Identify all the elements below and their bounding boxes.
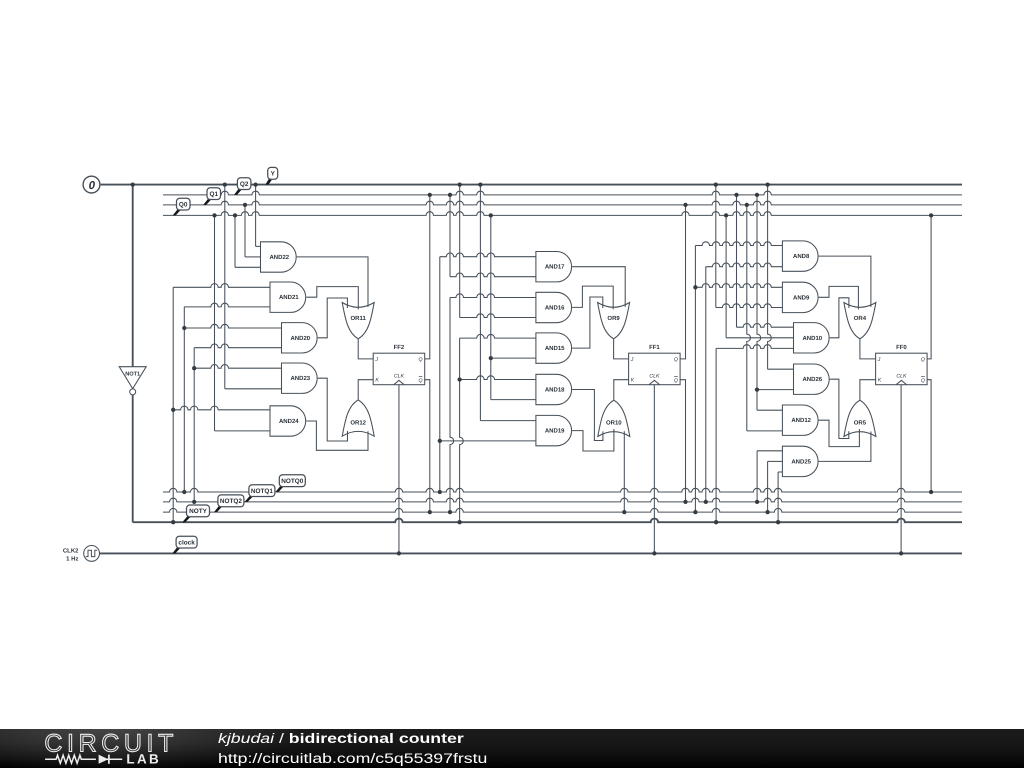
wire AND10 middle input	[726, 337, 793, 339]
wire OR4 output to FF0 J	[860, 339, 876, 359]
wire FF2 Q up to Q2 line	[425, 195, 430, 359]
junction lineB-v194	[192, 500, 196, 504]
wire AND21 output to OR11	[306, 287, 358, 310]
OR gate OR11 (pointing down)	[342, 303, 374, 339]
svg-text:0: 0	[89, 180, 96, 192]
svg-text:K: K	[375, 378, 379, 384]
wire OR10 output to FF1 K	[614, 380, 629, 401]
wire NOTQ1 tap up to AND8	[705, 267, 707, 502]
wire OR5 output to FF0 K	[860, 380, 876, 401]
wire AND24 bottom input	[215, 430, 271, 432]
svg-text:AND9: AND9	[793, 294, 810, 301]
junction lineA-v184	[182, 490, 186, 494]
svg-text:AND18: AND18	[545, 387, 565, 394]
svg-text:AND19: AND19	[545, 428, 565, 435]
junction lineC-OR10	[622, 510, 626, 514]
flag label NOTQ0	[276, 475, 306, 492]
svg-text:AND12: AND12	[791, 417, 811, 424]
svg-text:OR11: OR11	[351, 315, 367, 322]
wire FF2 Qbar down to NOTQ2 line	[425, 380, 430, 512]
wire AND22 top input	[256, 245, 261, 247]
junction AND9-top	[693, 285, 697, 289]
wire AND20 top input	[184, 324, 281, 328]
wire AND8 top input	[695, 242, 782, 246]
junction line1-v715	[714, 182, 718, 186]
OR gate OR10 (pointing up)	[598, 400, 630, 436]
junction line1-v255	[253, 182, 257, 186]
junction clock-FF2	[397, 551, 401, 555]
wire AND24 top input	[173, 406, 270, 410]
wire Q0 tap down to AND22	[234, 215, 236, 267]
flag label Y	[265, 167, 277, 184]
wire AND9 output to OR4	[819, 286, 859, 309]
junction line4-v235	[233, 213, 237, 217]
wire NOTY tap up to AND21	[172, 287, 174, 522]
svg-text:AND25: AND25	[791, 458, 811, 465]
junction lineA-FF0Qb	[929, 490, 933, 494]
svg-text:AND16: AND16	[545, 305, 565, 312]
wire NOTQ1 tap up to AND20	[193, 348, 195, 502]
OR gate OR4 (pointing down)	[844, 303, 876, 339]
wire AND16 bottom input	[460, 314, 536, 318]
wire NOT1 output down to NOTY line	[132, 395, 134, 522]
wire net0 tap down to AND16	[459, 185, 461, 318]
flag label NOTY	[182, 505, 209, 522]
AND gate AND23	[282, 363, 318, 393]
svg-text:Q: Q	[419, 357, 423, 363]
junction line2-FF2Q	[428, 193, 432, 197]
junction line4-v490	[489, 213, 493, 217]
wire OR12 output to FF2 K	[358, 380, 373, 400]
wire net0 tap down to AND23	[224, 185, 226, 389]
junction lineD-v173	[171, 520, 175, 524]
flag label Q2	[234, 178, 251, 195]
junction line4-v214	[212, 213, 216, 217]
wire FF2 CLK to clock line	[398, 385, 400, 554]
svg-text:CLK: CLK	[394, 374, 405, 380]
wire FF1 CLK to clock line	[653, 385, 655, 554]
AND gate AND10	[794, 323, 830, 353]
svg-text:AND17: AND17	[545, 264, 565, 271]
junction AND20-top	[182, 326, 186, 330]
wire OR11 output to FF2 J	[358, 339, 373, 359]
svg-text:OR5: OR5	[854, 420, 867, 427]
wire NOTQ2 tap up to AND16	[450, 298, 454, 513]
wire NOTQ2 tap up to AND8	[694, 246, 696, 513]
junction clock-FF1	[652, 551, 656, 555]
wire NOTQ2 up to OR10 right input	[623, 431, 625, 512]
junction AND19-bot	[438, 439, 442, 443]
wire AND12 output to OR5	[819, 420, 860, 446]
svg-text:AND21: AND21	[279, 294, 299, 301]
wire FF1 Q up to Q1 line	[680, 205, 685, 359]
wire Q1 tap down to AND12	[747, 205, 751, 431]
flip-flop FF2	[373, 344, 425, 385]
svg-text:CLK: CLK	[649, 374, 660, 380]
wire AND17 top input	[440, 253, 536, 257]
wire net0 tap down to AND26	[768, 185, 772, 370]
junction line1-v767	[765, 182, 769, 186]
node 0 terminal	[83, 176, 100, 193]
OR gate OR9 (pointing down)	[598, 303, 630, 339]
svg-text:AND20: AND20	[290, 335, 310, 342]
svg-text:Q0: Q0	[179, 201, 188, 208]
svg-text:Q: Q	[921, 378, 925, 384]
AND gate AND22	[261, 242, 297, 272]
AND gate AND19	[536, 415, 572, 445]
wire net0 tap down to AND22	[255, 185, 257, 247]
wire Q0 tap down to AND18	[490, 215, 492, 399]
svg-text:Q1: Q1	[210, 191, 219, 198]
wire AND21 top input	[173, 284, 270, 288]
wire AND18 output to OR10	[572, 390, 603, 441]
wire AND17 output to OR9	[572, 267, 625, 307]
AND gate AND17	[536, 252, 572, 282]
wire AND23 bottom input	[225, 388, 282, 390]
junction line4-FF0Q	[929, 213, 933, 217]
wire top bus line 3 (Q1 net)	[163, 201, 962, 205]
wire node 0 down to NOT1	[132, 185, 134, 367]
AND gate AND20	[282, 323, 318, 353]
junction lineB-v705	[704, 500, 708, 504]
junction line2-v450	[448, 193, 452, 197]
svg-text:AND22: AND22	[269, 254, 289, 261]
wire AND16 top input	[450, 294, 536, 298]
flag label Q1	[203, 188, 220, 205]
svg-text:Q2: Q2	[240, 181, 249, 188]
AND gate AND9	[782, 282, 818, 312]
svg-text:J: J	[374, 357, 378, 363]
wire AND21 bottom input	[184, 303, 270, 307]
wire AND15 bottom input	[491, 357, 536, 359]
wire NOTY tap up to AND25	[777, 472, 779, 522]
svg-text:AND24: AND24	[279, 418, 299, 425]
wire FF0 CLK to clock line	[900, 385, 902, 554]
footer bar	[0, 729, 1024, 768]
junction lineC-v450b	[448, 510, 452, 514]
svg-text:CLK: CLK	[896, 374, 907, 380]
svg-text:Q: Q	[419, 378, 423, 384]
AND gate AND18	[536, 374, 572, 404]
wire AND9 bottom input	[716, 304, 783, 308]
wire Q0 tap down to AND24	[214, 215, 216, 431]
svg-text:1 Hz: 1 Hz	[66, 555, 78, 562]
junction AND23-top	[192, 366, 196, 370]
junction line3-v245	[243, 203, 247, 207]
wire AND19 bottom input	[440, 440, 536, 442]
svg-text:OR9: OR9	[607, 315, 620, 322]
junction lineC-v695	[693, 510, 697, 514]
clock source CLK2 1 Hz	[63, 546, 100, 563]
svg-text:LAB: LAB	[126, 752, 161, 767]
wire AND10 output to OR4	[830, 298, 849, 338]
wire clock line	[100, 552, 963, 554]
wire OR9 output to FF1 J	[614, 339, 629, 359]
flag label Q0	[173, 198, 190, 215]
svg-text:AND15: AND15	[545, 345, 565, 352]
junction line4-v726	[724, 213, 728, 217]
AND gate AND25	[782, 446, 818, 476]
junction lineD-v778	[776, 520, 780, 524]
wire bottom bus line NOTQ1	[163, 498, 962, 502]
svg-text:OR12: OR12	[350, 419, 366, 426]
wire bottom bus line NOTY	[133, 519, 962, 523]
junction lineA-v440	[438, 490, 442, 494]
junction lineD-v459b	[457, 520, 461, 524]
wire NOTQ0 tap up to AND21	[183, 307, 185, 492]
svg-text:CLK2: CLK2	[63, 548, 79, 555]
junction AND26-bot	[755, 387, 759, 391]
wire Q1 tap down to AND22	[244, 205, 246, 257]
wire AND26 bottom input	[757, 389, 794, 391]
flip-flop FF1	[629, 344, 681, 385]
wire FF0 Qbar down to NOTQ0 line	[927, 380, 931, 492]
AND gate AND24	[270, 406, 306, 436]
svg-text:NOTQ1: NOTQ1	[251, 488, 273, 495]
svg-text:NOTY: NOTY	[189, 508, 207, 515]
svg-text:FF1: FF1	[649, 344, 660, 351]
svg-text:FF2: FF2	[394, 344, 405, 351]
junction line1-v224	[223, 182, 227, 186]
junction lineC-v767b	[765, 510, 769, 514]
wire NOTQ0 tap up to AND17	[439, 257, 441, 492]
wire AND17 bottom input	[450, 273, 536, 277]
wire bottom bus line NOTQ0	[163, 488, 962, 492]
wire AND25 bottom input	[778, 471, 782, 473]
wire AND22 bottom input	[235, 266, 261, 268]
AND gate AND15	[536, 333, 572, 363]
junction AND24-top	[171, 408, 175, 412]
svg-text:AND10: AND10	[802, 335, 822, 342]
svg-text:Y: Y	[271, 171, 276, 178]
wire NOTQ2 tap up to AND25	[767, 461, 769, 512]
flag label clock	[172, 536, 197, 553]
wire NOTQ1 tap up to AND25	[756, 451, 758, 502]
wire AND22 output to OR11	[297, 257, 368, 307]
wire net0 tap down to AND19	[479, 185, 481, 421]
junction line1-v459	[458, 182, 462, 186]
wire AND18 top input	[460, 376, 536, 380]
junction AND15-bot	[489, 356, 493, 360]
svg-text:J: J	[877, 357, 881, 363]
wire top bus line 2 (Q2 net)	[163, 191, 962, 195]
footer caption	[218, 729, 487, 769]
wire AND12 bottom input	[747, 430, 783, 432]
junction line3-FF1Q	[683, 203, 687, 207]
wire FF1 Qbar down to NOTQ1 line	[680, 380, 685, 502]
wire AND10 bottom input	[716, 345, 793, 349]
svg-text:NOTQ0: NOTQ0	[281, 478, 303, 485]
svg-text:Q: Q	[921, 357, 925, 363]
AND gate AND8	[782, 241, 818, 271]
svg-text:clock: clock	[178, 539, 195, 546]
wire AND20 output to OR11	[318, 298, 348, 338]
svg-text:Q: Q	[674, 378, 678, 384]
wire AND25 output to OR5	[819, 432, 871, 462]
junction line3-v746	[745, 203, 749, 207]
svg-text:NOTQ2: NOTQ2	[220, 498, 242, 505]
svg-text:AND8: AND8	[793, 253, 810, 260]
wire AND25 top input	[757, 450, 782, 452]
wire AND19 top input	[480, 420, 536, 422]
OR gate OR12 (pointing up)	[342, 400, 374, 436]
wire top bus line 1 (node 0 / Y net)	[101, 184, 962, 186]
junction clock-FF0	[899, 551, 903, 555]
junction lineB-FF1Qb	[683, 500, 687, 504]
wire AND10 top input	[737, 324, 794, 328]
wire Q0 tap down to AND10	[725, 215, 727, 337]
wire NOTY tap up to AND10	[715, 348, 717, 522]
svg-text:OR4: OR4	[854, 315, 867, 322]
svg-text:AND23: AND23	[290, 375, 310, 382]
wire AND23 output to OR12	[318, 378, 348, 441]
junction lineD-v716	[714, 520, 718, 524]
OR gate OR5 (pointing up)	[844, 400, 876, 436]
svg-text:OR10: OR10	[606, 420, 622, 427]
wire FF0 Q up to Q0 line	[927, 215, 931, 359]
junction line1-v480	[478, 182, 482, 186]
AND gate AND21	[270, 282, 306, 312]
wire NOTY tap up to AND15	[460, 338, 464, 522]
wire AND22 middle input	[245, 256, 261, 258]
junction lineC-FF2Qb	[428, 510, 432, 514]
svg-text:K: K	[631, 378, 635, 384]
wire AND23 top input	[194, 365, 281, 369]
inverter NOT1	[119, 367, 146, 395]
svg-text:AND26: AND26	[802, 376, 822, 383]
AND gate AND12	[782, 405, 818, 435]
wire Q2 tap down to AND10	[736, 195, 738, 327]
wire AND16 output to OR9	[572, 286, 613, 309]
flip-flop FF0	[876, 344, 928, 385]
flag label NOTQ1	[245, 485, 275, 502]
junction lineB-v757b	[755, 500, 759, 504]
wire top bus line 4 (Q0 net)	[163, 212, 962, 216]
wire AND26 output to OR5	[830, 379, 849, 438]
wire AND15 output to OR9	[572, 297, 603, 348]
wire Q2 tap down to AND12	[757, 195, 761, 410]
wire AND20 bottom input	[194, 344, 281, 348]
svg-text:FF0: FF0	[896, 344, 907, 351]
wire AND26 top input	[768, 368, 794, 370]
wire AND24 output to OR12	[306, 421, 368, 450]
junction line2-v757	[755, 193, 759, 197]
wire AND25 middle input	[768, 460, 783, 462]
junction line1-NOT1	[131, 182, 135, 186]
flag label NOTQ2	[214, 495, 244, 512]
wire AND8 bottom input	[706, 263, 783, 267]
svg-text:Q: Q	[674, 357, 678, 363]
wire AND18 bottom input	[491, 399, 536, 401]
wire AND9 top input	[695, 284, 782, 288]
wire AND15 top input	[460, 334, 536, 338]
CircuitLab logo	[44, 730, 184, 768]
wire bottom bus line NOTQ2	[163, 508, 962, 512]
wire net0 tap down to AND9	[715, 185, 717, 308]
wire AND12 top input	[757, 409, 782, 411]
junction AND18-top	[457, 377, 461, 381]
junction line2-v736	[734, 193, 738, 197]
svg-text:K: K	[878, 378, 882, 384]
wire Q2 tap down to AND17	[449, 195, 451, 277]
svg-text:NOT1: NOT1	[125, 372, 140, 378]
svg-text:J: J	[630, 357, 634, 363]
wire AND19 output to OR10	[572, 429, 614, 451]
AND gate AND26	[794, 364, 830, 394]
AND gate AND16	[536, 292, 572, 322]
wire AND8 output to OR4	[819, 256, 871, 307]
